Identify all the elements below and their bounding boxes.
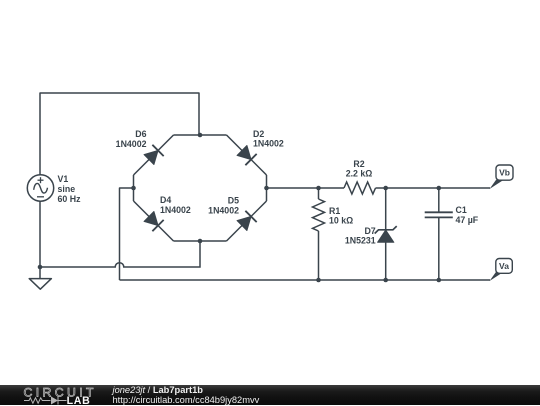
zener diode D7 1N5231 — [375, 226, 397, 242]
svg-text:R2: R2 — [353, 159, 364, 169]
label D2 — [253, 129, 284, 149]
svg-text:C1: C1 — [456, 205, 467, 215]
wire: bridge top edge — [174, 134, 227, 136]
junction: R1 top — [316, 186, 321, 191]
node Va terminal flag — [490, 259, 513, 282]
wire: bridge right edge — [266, 175, 268, 201]
label R2 value — [346, 159, 373, 179]
svg-text:1N4002: 1N4002 — [160, 205, 191, 215]
junction: D7 top — [383, 186, 388, 191]
resistor R1 10 kOhm — [313, 199, 325, 231]
wire: V1 bottom to ground junction — [39, 201, 41, 267]
diode D2 1N4002 — [227, 135, 267, 175]
svg-text:R1: R1 — [329, 206, 340, 216]
svg-text:D2: D2 — [253, 129, 264, 139]
capacitor C1 47 uF — [425, 212, 453, 217]
wire: R2 to Vb flag — [376, 187, 491, 189]
svg-text:1N4002: 1N4002 — [116, 139, 147, 149]
svg-text:1N4002: 1N4002 — [253, 139, 284, 149]
wire: Va rail — [120, 279, 491, 281]
svg-text:47 µF: 47 µF — [456, 215, 479, 225]
wire: bridge left edge — [133, 175, 135, 201]
diode D6 1N4002 — [134, 135, 174, 175]
junction: bridge right node — [264, 186, 269, 191]
junction: C1 top — [437, 186, 442, 191]
wire: V1 top to bridge top node — [40, 93, 199, 175]
label D6 — [116, 129, 147, 149]
wire: D7 leads — [385, 188, 387, 230]
junction: C1 bottom — [437, 278, 442, 283]
wire: bridge left node to Va rail — [120, 188, 134, 280]
svg-text:1N5231: 1N5231 — [345, 235, 376, 245]
svg-text:V1: V1 — [58, 174, 69, 184]
wire: C1 leads — [438, 188, 440, 212]
junction: bridge top node — [198, 133, 203, 138]
svg-text:D7: D7 — [364, 226, 375, 236]
svg-text:D5: D5 — [228, 196, 239, 206]
svg-text:D6: D6 — [135, 129, 146, 139]
junction: bridge left node — [131, 186, 136, 191]
label R1 value — [329, 206, 353, 226]
junction: R1 bottom — [316, 278, 321, 283]
diode D5 1N4002 — [227, 201, 267, 241]
label V1 value — [58, 174, 82, 204]
label D4 — [160, 195, 191, 215]
label D7 value — [345, 226, 376, 246]
junction: bridge bottom node — [198, 239, 203, 244]
diode D4 1N4002 — [134, 201, 174, 241]
wire: R1 leads — [318, 188, 320, 199]
svg-text:sine: sine — [58, 184, 76, 194]
resistor R2 2.2 kOhm — [344, 182, 376, 194]
label D5 — [208, 196, 239, 216]
wire: bridge bottom edge — [174, 240, 227, 242]
label C1 value — [456, 205, 479, 225]
junction: D7 bottom — [383, 278, 388, 283]
svg-text:Vb: Vb — [499, 168, 510, 178]
svg-text:10 kΩ: 10 kΩ — [329, 215, 353, 225]
junction: V1/ground node — [38, 265, 43, 270]
ground — [29, 267, 51, 289]
CircuitLab logo — [22, 385, 114, 405]
svg-text:60 Hz: 60 Hz — [58, 194, 82, 204]
svg-text:1N4002: 1N4002 — [208, 206, 239, 216]
svg-text:LAB: LAB — [67, 395, 91, 405]
svg-text:Va: Va — [499, 261, 509, 271]
svg-text:2.2 kΩ: 2.2 kΩ — [346, 168, 373, 178]
node Vb terminal flag — [490, 165, 514, 189]
wire: bridge right node to R2 — [267, 187, 345, 189]
wire: ground junction to bridge bottom (with hop over left bypass wire) — [40, 241, 200, 267]
voltage source V1 — [27, 175, 53, 201]
svg-text:D4: D4 — [160, 195, 171, 205]
